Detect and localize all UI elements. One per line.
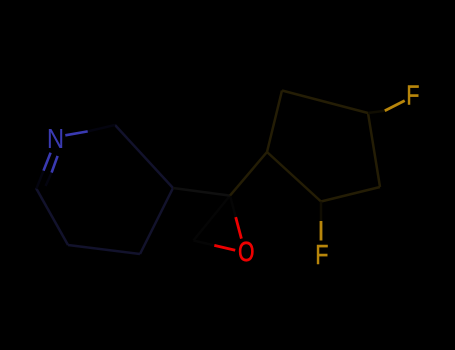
- svg-text:N: N: [47, 124, 64, 154]
- svg-text:F: F: [315, 241, 328, 271]
- svg-text:O: O: [238, 237, 254, 267]
- svg-text:F: F: [406, 81, 419, 111]
